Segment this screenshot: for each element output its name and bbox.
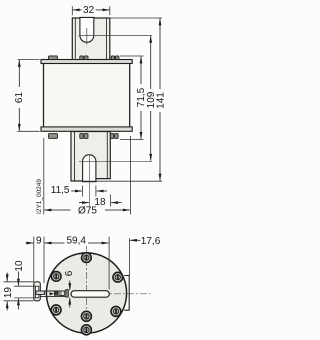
fuse body circle: [46, 253, 126, 333]
indicator window block: [59, 291, 64, 296]
indicator pointer (arrowhead): [50, 292, 54, 296]
top cap grip lug rivets: [49, 56, 58, 60]
bottom end cap: [41, 127, 132, 131]
svg-text:I2Y1_00249: I2Y1_00249: [36, 179, 43, 214]
bottom blade inner edge lines: [74, 132, 76, 181]
left gripping lug (indicator housing): [34, 282, 41, 301]
dimension 61 (body height): [18, 59, 40, 61]
rivet upper-right: [113, 272, 123, 282]
bottom slot centre line: [89, 155, 91, 207]
top end cap: [41, 60, 132, 64]
dimension &#216;75 (body diameter): [43, 138, 45, 215]
indicator block: [54, 291, 58, 295]
dimension 32 (top blade width): [71, 6, 73, 15]
svg-text:Ø75: Ø75: [78, 206, 97, 217]
top blade inner edge lines: [74, 18, 76, 60]
fuse body (ceramic barrel): [44, 63, 130, 127]
svg-text:32: 32: [83, 5, 95, 16]
indicator pin: [36, 291, 45, 295]
top slot centre mark cross / extension to 109 dim: [79, 34, 153, 36]
bottom blade slot (inverted U cut-out): [83, 155, 96, 182]
right fixing tab: [124, 276, 129, 311]
dimension 59,4 (lug to slot end): [108, 237, 110, 290]
rivet bottom outer: [81, 325, 91, 335]
blade slot (stadium): [71, 291, 109, 298]
svg-text:9: 9: [36, 235, 42, 246]
bottom slot centre mark / extension to 109 dim: [79, 160, 152, 162]
svg-text:10: 10: [14, 260, 25, 272]
svg-text:19: 19: [3, 287, 14, 299]
horizontal centre line: [36, 293, 151, 295]
svg-text:61: 61: [14, 92, 25, 104]
indicator channel: [40, 290, 66, 292]
bottom blade contact (stepped tip): [71, 132, 110, 182]
dimension 19 (lug height): [4, 281, 34, 283]
dimension 109 (slot centre to slot centre): [150, 36, 152, 46]
bottom cap grip lug rivets: [49, 134, 58, 139]
top blade slot (U cut-out): [80, 17, 94, 42]
svg-text:11,5: 11,5: [51, 185, 70, 196]
dimension 9 (lug width): [33, 237, 35, 282]
rivet lower-left: [51, 305, 61, 315]
top blade contact: [72, 18, 110, 61]
svg-text:59,4: 59,4: [66, 236, 86, 247]
rivet lower-right: [111, 306, 121, 316]
svg-text:17,6: 17,6: [141, 236, 161, 247]
dimension 18 (slot centre to blade edge): [79, 202, 89, 204]
bar before slot: [66, 290, 69, 297]
dimension 141 (overall length): [110, 17, 162, 19]
svg-text:6: 6: [64, 270, 75, 276]
dimension 17,6 (slot end to tab): [128, 238, 130, 275]
vertical centre line: [86, 246, 88, 338]
svg-text:141: 141: [156, 92, 167, 109]
dimension 71,5 (over grip lugs): [120, 55, 144, 57]
rivet bottom inner: [81, 311, 91, 321]
rivet top centre: [82, 253, 92, 263]
lug window: [35, 286, 38, 298]
rivet upper-left: [51, 272, 61, 282]
dimension 10 (window height): [14, 285, 36, 287]
